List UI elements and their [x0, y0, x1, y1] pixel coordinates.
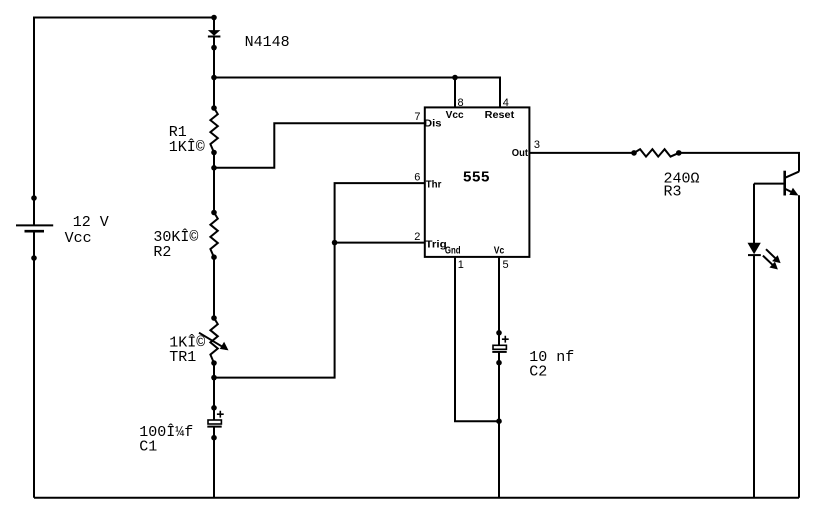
junction battery positive [31, 195, 37, 201]
svg-text:2: 2 [414, 231, 420, 243]
junction battery negative [31, 255, 37, 261]
capacitor C2 top plate box [493, 345, 506, 349]
wire pin 2 Trig to TR1 bottom node [214, 243, 425, 378]
wire pin 7 Dis to R1 bottom node [214, 123, 425, 168]
svg-text:R3: R3 [664, 184, 682, 201]
wire C2 bottom to ground rail [498, 352, 500, 498]
wire pin 1 Gnd down and over to C2 net [455, 257, 499, 421]
junction C1 bottom terminal [211, 435, 217, 441]
svg-text:C1: C1 [139, 438, 157, 455]
LED D2 triangle [748, 243, 761, 254]
potentiometer TR1 zigzag [210, 318, 217, 363]
junction R1 bottom terminal [211, 150, 217, 156]
capacitor C2 bottom plate [492, 351, 506, 353]
svg-text:8: 8 [458, 97, 464, 109]
svg-text:12 V: 12 V [73, 214, 109, 231]
LED D2 emission arrow 2 shaft [763, 256, 774, 267]
capacitor C1 bottom plate [207, 426, 221, 428]
svg-text:1: 1 [458, 259, 464, 271]
svg-text:Thr: Thr [426, 180, 442, 191]
wire diode anode stub [213, 18, 215, 31]
svg-text:C2: C2 [529, 363, 547, 380]
svg-text:Out: Out [512, 148, 529, 159]
LED D2 cathode bar [748, 254, 761, 256]
svg-text:Gnd: Gnd [445, 245, 461, 256]
junction TR1 tap node [211, 375, 217, 381]
svg-text:6: 6 [414, 172, 420, 184]
LED D2 arrowhead 1 [772, 255, 781, 263]
junction pin 8 riser node [452, 75, 458, 81]
svg-text:Vcc: Vcc [446, 110, 464, 121]
svg-text:5: 5 [503, 259, 509, 271]
wire TR1 bottom to C1 top [213, 363, 215, 420]
junction R3 left terminal [631, 150, 637, 156]
junction R2 top terminal [211, 210, 217, 216]
resistor R3 zigzag [634, 149, 679, 156]
junction C1 top terminal [211, 405, 217, 411]
svg-text:Reset: Reset [485, 110, 515, 121]
wire pin 6 Thr down to Trig net [335, 183, 425, 243]
junction top rail at diode [211, 15, 217, 21]
svg-text:N4148: N4148 [245, 34, 290, 51]
svg-text:R2: R2 [153, 244, 171, 261]
potentiometer TR1 wiper arrow shaft [199, 333, 227, 350]
battery B1 short negative plate [25, 230, 45, 233]
wire Vcc feed to 555 pins 8 and 4 [214, 78, 500, 108]
svg-text:TR1: TR1 [169, 349, 196, 366]
junction node A Dis tap [211, 165, 217, 171]
transistor Q1 emitter arrowhead [789, 188, 798, 196]
wire diode cathode to R1 top [213, 37, 215, 109]
junction Gnd net at C2 branch [496, 418, 502, 424]
svg-text:1KÎ©: 1KÎ© [169, 138, 205, 156]
transistor Q1 emitter diagonal [786, 189, 797, 194]
diode D1 triangle [208, 30, 221, 36]
capacitor C1 top plate box [208, 420, 221, 424]
wire bottom ground rail [34, 497, 799, 499]
transistor Q1 base bar [783, 171, 786, 196]
wire pin 5 Vc down to C2 top [498, 257, 500, 345]
LED D2 arrowhead 2 [769, 262, 778, 270]
junction R1 top terminal [211, 105, 217, 111]
capacitor C2 polarity plus sign [502, 336, 509, 343]
capacitor C1 polarity plus sign [217, 411, 224, 418]
junction TR1 bottom terminal [211, 360, 217, 366]
svg-text:Trig: Trig [425, 240, 446, 251]
svg-text:555: 555 [463, 169, 490, 186]
svg-text:Vc: Vc [494, 245, 505, 256]
diode D1 cathode bar [208, 36, 221, 38]
junction R3 right terminal [676, 150, 682, 156]
wire LED branch vertical above LED [753, 184, 755, 243]
svg-text:3: 3 [534, 139, 540, 151]
junction diode cathode [211, 45, 217, 51]
wire R3 right to transistor collector corner [679, 153, 799, 172]
junction Vcc feed node [211, 75, 217, 81]
junction C2 top terminal [496, 330, 502, 336]
battery B1 long positive plate [16, 224, 53, 226]
LED D2 emission arrow 1 shaft [766, 249, 777, 260]
wire emitter vertical to ground rail [798, 195, 800, 497]
svg-text:Vcc: Vcc [65, 230, 92, 247]
wire C1 bottom to ground rail [213, 428, 215, 498]
junction Thr-Trig net [332, 240, 338, 246]
junction TR1 top terminal [211, 315, 217, 321]
svg-text:7: 7 [414, 111, 420, 123]
wire R2 bottom to TR1 top [213, 257, 215, 318]
potentiometer TR1 arrowhead [220, 342, 229, 351]
wire LED cathode to ground rail [753, 255, 755, 498]
wire pin 3 Out to R3 left [529, 152, 634, 154]
transistor Q1 collector diagonal [786, 172, 800, 178]
IC U1 555 body [425, 107, 530, 257]
resistor R1 zigzag [210, 108, 217, 153]
wire left rail battery negative to ground rail [33, 232, 35, 498]
junction R2 bottom terminal [211, 254, 217, 260]
wire pin 8 riser [454, 78, 456, 108]
wire transistor base from LED branch [754, 183, 785, 185]
junction C2 bottom terminal [496, 360, 502, 366]
resistor R2 zigzag [210, 213, 217, 258]
wire R1 bottom to node A junction [213, 153, 215, 213]
svg-text:4: 4 [503, 97, 509, 109]
svg-text:Dis: Dis [424, 119, 442, 130]
wire top rail from battery to diode [34, 18, 214, 226]
